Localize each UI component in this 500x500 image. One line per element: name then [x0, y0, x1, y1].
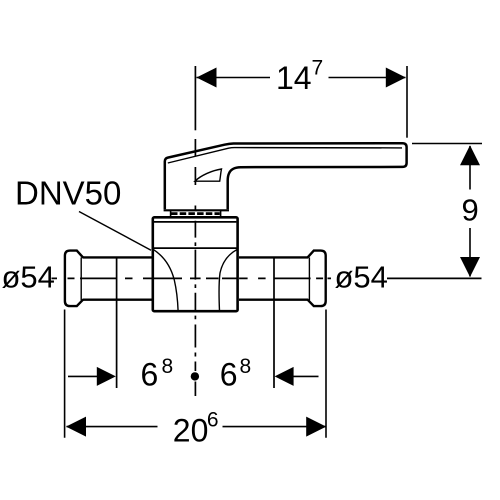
svg-text:14: 14 [276, 60, 312, 96]
svg-text:7: 7 [312, 57, 324, 80]
svg-text:6: 6 [141, 357, 159, 393]
svg-text:6: 6 [220, 357, 238, 393]
svg-text:20: 20 [173, 412, 209, 448]
svg-text:6: 6 [207, 409, 219, 432]
svg-text:8: 8 [162, 355, 174, 378]
svg-text:ø54: ø54 [2, 259, 55, 294]
svg-text:DNV50: DNV50 [15, 175, 121, 212]
svg-text:8: 8 [240, 355, 252, 378]
svg-text:ø54: ø54 [335, 259, 388, 294]
svg-text:9: 9 [462, 193, 479, 228]
